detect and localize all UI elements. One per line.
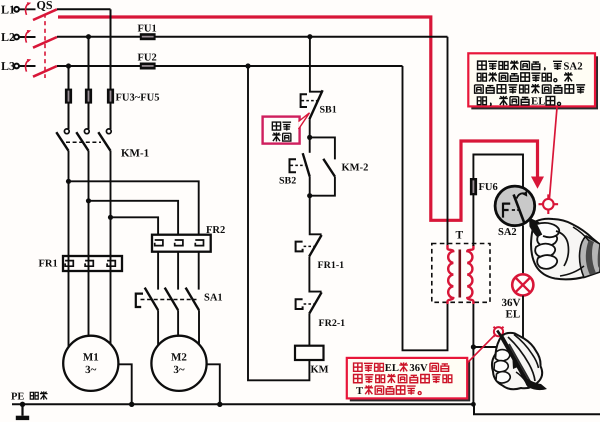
callout box 2 (347, 358, 467, 399)
fuse FU4 (85, 89, 92, 104)
fuse FU5 (107, 89, 114, 104)
node control tap on L2 (307, 34, 312, 39)
thermal relay FR2 heater 3 (195, 240, 203, 246)
node branch junction phase B (86, 198, 91, 203)
wire branch phase C to FR2 (111, 217, 159, 234)
wire phase A to M1 (68, 151, 70, 347)
switch SA2 knob (495, 186, 535, 226)
motor M1 (63, 336, 118, 391)
coil KM (295, 346, 324, 360)
wire PE earth bus (12, 404, 600, 414)
thermal relay FR2 heater 1 (155, 240, 163, 246)
target marker at EL wire (494, 327, 504, 337)
svg-text:L2: L2 (1, 30, 15, 44)
node EL return junction (471, 344, 476, 349)
switch SA1 blade pole 1 (145, 288, 158, 311)
switch QS blade pole 3 (33, 66, 57, 77)
wire L3 drop (68, 66, 70, 129)
wire KM coil return to L3 (248, 66, 309, 380)
svg-text:M1: M1 (83, 352, 99, 364)
switch QS rotation arrow pole 1 (26, 2, 32, 15)
label PE接地 (11, 391, 48, 402)
callout box 1 text line 2 旋至接通的状态。此 (477, 72, 572, 82)
wire SA1 to M2 left (157, 310, 159, 345)
svg-text:FU3~FU5: FU3~FU5 (116, 93, 160, 104)
arrowhead pointing at SA2 (531, 177, 544, 189)
switch QS rotation arrow pole 2 (26, 30, 32, 43)
transformer T primary winding (448, 245, 454, 304)
contactor KM-1 gang dashed link (66, 141, 101, 143)
callout box 1 shadow (471, 56, 598, 109)
switch SA2 contact symbol (503, 191, 527, 223)
pushbutton SB2 blade (303, 153, 310, 176)
svg-text:KM: KM (311, 365, 329, 376)
contactor KM-1 pole 2 fixed contact (84, 129, 89, 134)
hand illustration 2 (pointing pen at EL wire) (492, 331, 547, 391)
pushbutton SB1 actuator (301, 94, 317, 107)
svg-text:SA2: SA2 (498, 227, 517, 238)
svg-text:3~: 3~ (85, 364, 97, 376)
wire L3 stub (19, 65, 36, 67)
contactor KM-1 pole 3 blade (98, 132, 110, 151)
node L3 tap junction (66, 63, 71, 68)
wire L3 run (57, 65, 403, 67)
node M1 PE junction (129, 402, 134, 407)
svg-text:M2: M2 (171, 352, 187, 364)
wire L1 stub (19, 8, 36, 10)
callout box 2 shadow (350, 361, 470, 402)
switch SA1 handle (136, 294, 143, 307)
wire L2 to SB1 (310, 37, 322, 92)
svg-text:FR2: FR2 (206, 225, 225, 236)
callout box 1 text line 1 需要照明灯时，将SA2 (478, 60, 583, 72)
svg-text:EL: EL (506, 309, 521, 321)
node L2 terminal (14, 35, 19, 40)
fuse FU2 (140, 63, 156, 70)
switch SA1 blade pole 3 (186, 288, 199, 311)
callout reset-closed box (263, 113, 310, 144)
callout box 1 text line 4 路，照明灯EL亮。 (477, 96, 545, 108)
target marker at SA2 (539, 194, 559, 214)
wire FR2 to SA1 mid (177, 252, 179, 290)
wire L3 drop to primary return (403, 66, 448, 350)
wire L1 drop (110, 9, 112, 129)
wire branch phase A to FR2 (69, 181, 199, 234)
contact FR2-1 blade (309, 292, 321, 313)
wire branch phase B to FR2 (89, 201, 179, 235)
wire SA1 to M2 mid (177, 310, 179, 336)
contactor KM-1 pole 1 fixed contact (64, 129, 69, 134)
contact FR1-1 blade (309, 235, 321, 256)
contactor KM-1 pole 2 blade (76, 132, 88, 151)
transformer T secondary winding (467, 245, 473, 304)
lamp EL (512, 274, 533, 295)
contact KM-2 branch (310, 137, 335, 195)
svg-text:QS: QS (37, 0, 53, 12)
callout box 2 text line 2 电压是由照明变压器 (354, 374, 452, 383)
wire FR2-1 to KM coil (308, 314, 310, 346)
svg-text:SA1: SA1 (204, 293, 223, 304)
wire SB2 down (309, 177, 311, 196)
wire FR2 to SA1 right (198, 252, 200, 290)
contact FR1-1 thermal actuator (296, 242, 314, 252)
svg-text:EL: EL (385, 363, 399, 374)
wire EL return (473, 296, 523, 405)
contact FR2-1 thermal actuator (296, 299, 314, 309)
node branch junction phase A (66, 179, 71, 184)
node branch junction phase C (108, 215, 113, 220)
switch SA1 gang dashed link (141, 299, 197, 301)
node L1 terminal (14, 7, 19, 12)
transformer T dashed enclosure (432, 244, 490, 303)
wire M2 frame to PE (207, 364, 220, 404)
wire L1 top run (57, 8, 111, 10)
fuse FU3 (65, 89, 72, 104)
wire L1 highlighted path (red) (58, 17, 538, 220)
thermal relay FR1 heater 2 (85, 261, 93, 267)
wire L2 drop to transformer primary (447, 37, 449, 247)
switch QS blade pole 1 (33, 9, 57, 20)
wire SA1 to M2 right (198, 310, 200, 345)
svg-text:L3: L3 (1, 59, 15, 73)
wire SB1 to SB2 (309, 119, 311, 153)
svg-text:PE: PE (11, 392, 24, 403)
callout box 1 text line 3 时照明变压器次级为通 (475, 84, 586, 94)
svg-text:SB1: SB1 (320, 105, 337, 116)
svg-text:KM-2: KM-2 (342, 163, 369, 174)
callout box 2 pointer line (467, 335, 495, 363)
svg-text:T: T (356, 386, 363, 397)
svg-text:T: T (456, 230, 464, 242)
contact KM-2 blade (323, 159, 335, 177)
wire SB2 to FR1-1 (310, 196, 322, 235)
svg-text:SA2: SA2 (563, 60, 582, 72)
wire SA2 to EL (522, 226, 524, 275)
svg-text:FU6: FU6 (479, 182, 498, 193)
pushbutton SB2 actuator (290, 159, 306, 172)
wire L2 drop (88, 37, 90, 129)
node PE ground junction (20, 402, 25, 407)
svg-text:FR1-1: FR1-1 (318, 260, 345, 271)
fuse FU6 (470, 178, 477, 195)
thermal relay FR2 body (152, 235, 211, 252)
svg-text:L1: L1 (1, 3, 15, 17)
wire FR2 to SA1 left (157, 252, 159, 290)
motor M2 (151, 336, 206, 391)
switch QS blade pole 2 (33, 37, 57, 48)
switch SA1 blade pole 2 (165, 288, 178, 311)
switch QS gang dashed link (44, 14, 46, 79)
wire phase B to M1 (88, 151, 90, 336)
svg-text:36V: 36V (502, 297, 521, 309)
svg-text:36V: 36V (409, 363, 428, 374)
thermal relay FR1 heater 1 (65, 261, 73, 267)
callout box 2 text line 1 照明灯EL的36V供电 (354, 363, 399, 374)
contactor KM-1 pole 3 fixed contact (106, 129, 111, 134)
node M2 PE junction (217, 402, 222, 407)
wire M1 frame to PE (118, 364, 131, 404)
callout reset-closed text 复位/闭合 (272, 122, 291, 141)
ground symbol (16, 404, 29, 420)
svg-text:FU1: FU1 (138, 24, 157, 35)
transformer T core (458, 250, 461, 298)
contactor KM-1 pole 1 blade (56, 132, 68, 151)
callout box 1 pointer line (549, 108, 557, 201)
node L2 tap junction (86, 34, 91, 39)
fuse FU1 (140, 33, 156, 40)
wire FR1-1 to FR2-1 (309, 256, 321, 291)
hand illustration 1 (turning SA2) (529, 218, 600, 280)
wire L2 run to transformer (57, 36, 448, 38)
node junction below SB1 (307, 135, 312, 140)
svg-text:SB2: SB2 (279, 176, 296, 187)
svg-text:FR1: FR1 (39, 259, 58, 270)
node junction below SB2 (307, 193, 312, 198)
svg-text:FR2-1: FR2-1 (319, 318, 346, 329)
callout box 1 (468, 53, 595, 106)
pushbutton SB1 blade (309, 90, 322, 119)
svg-text:EL: EL (531, 96, 545, 108)
thermal relay FR1 body (63, 256, 122, 271)
svg-text:3~: 3~ (173, 364, 185, 376)
thermal relay FR1 heater 3 (107, 261, 115, 267)
wire L2 stub (19, 36, 36, 38)
node L3 terminal (14, 64, 19, 69)
switch QS rotation arrow pole 3 (26, 59, 32, 72)
svg-text:FU2: FU2 (138, 53, 157, 64)
thermal relay FR2 heater 2 (175, 240, 183, 246)
svg-text:KM-1: KM-1 (121, 148, 149, 160)
wire phase C to M1 (110, 151, 112, 344)
node PE tie junction (471, 402, 476, 407)
wire secondary top to SA2 (473, 155, 523, 247)
node control tap on L3 (245, 63, 250, 68)
